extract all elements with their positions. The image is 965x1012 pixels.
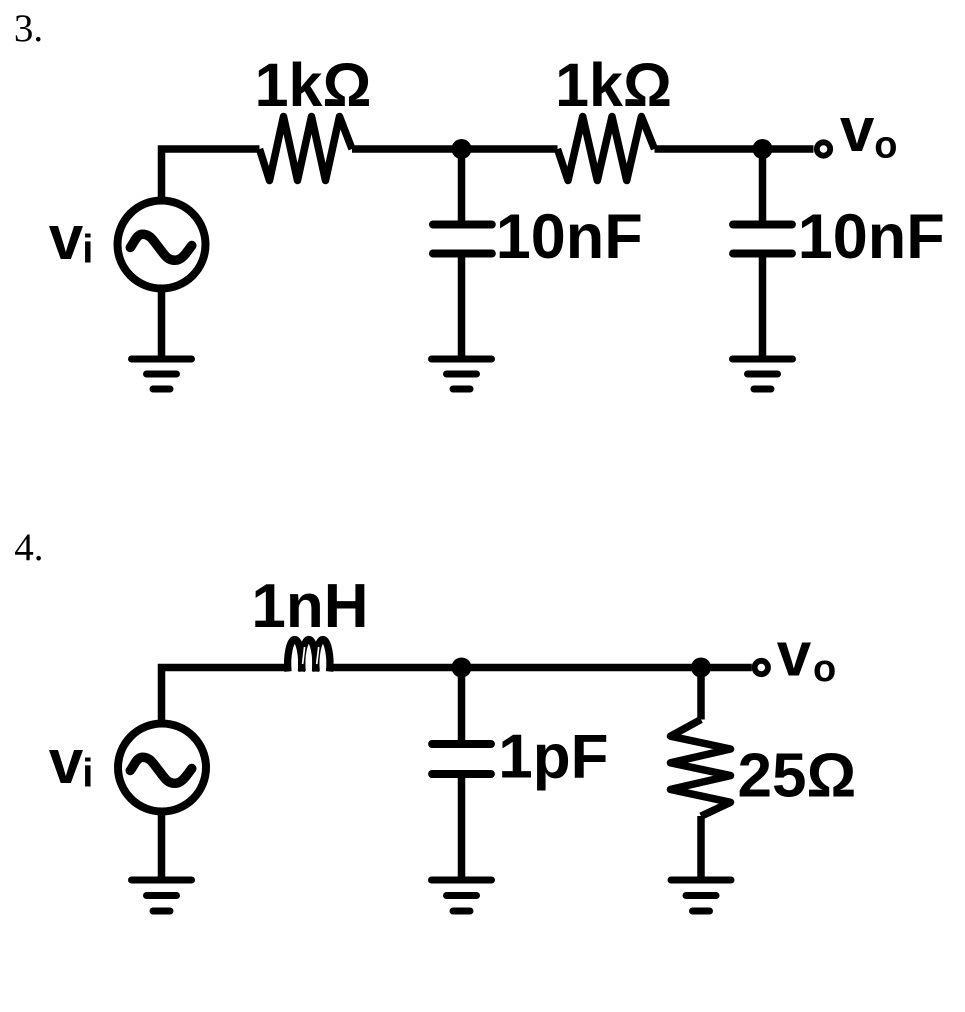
inductor L1 humps [288,640,330,672]
label vo circuit 4 [777,621,837,691]
svg-text:25Ω: 25Ω [738,742,857,811]
ground under C3 [432,880,492,911]
wire: C2 bottom plate to ground [759,254,767,360]
svg-text:v: v [840,96,875,165]
wire: R2 right lead to output terminal through node B [655,145,814,153]
svg-text:i: i [82,752,93,796]
svg-text:1pF: 1pF [498,723,608,792]
ground under source, circuit 4 [132,880,192,911]
resistor R2 1kΩ zigzag [558,117,655,181]
capacitor C3 plates [432,744,491,774]
svg-text:v: v [777,621,812,690]
AC source VI circuit 3: circle [118,201,206,289]
AC source VI circuit 4: circle [118,724,206,812]
capacitor C2 plates [733,225,792,254]
AC source VI circuit 4: sine wave [130,757,192,783]
wire: inductor right lead to output terminal, circuit 4 [329,664,752,672]
wire: node D down to resistor R3 [697,668,705,720]
wire: node A down to capacitor C1 [458,149,466,228]
svg-text:1kΩ: 1kΩ [255,51,372,119]
wire: node B down to capacitor C2 [759,149,767,228]
svg-text:10nF: 10nF [798,202,945,272]
ground under C1 [432,359,492,389]
svg-text:3.: 3. [14,7,43,50]
ground under source, circuit 3 [132,359,192,389]
label vi circuit 4 [49,728,94,797]
wire: C3 bottom plate to ground [458,774,466,880]
wire: source top corner to resistor R1 left lead [162,149,260,198]
wire: node C down to capacitor C3 [458,668,466,748]
label vi circuit 3 [49,204,94,273]
output terminal vo circuit 4 (open circle) [755,661,768,674]
node A junction dot [452,139,472,159]
wire: R3 bottom to ground [697,816,705,880]
label vo circuit 3 [840,96,898,167]
node C junction dot (capacitor node) [452,658,472,678]
wire: source bottom to ground, circuit 3 [158,288,166,359]
wire: source top corner to inductor L1 left lead, circuit 4 [162,668,291,723]
output terminal vo circuit 3 (open circle) [817,142,830,155]
wire: R1 right lead to R2 left lead through node A [352,145,558,153]
capacitor C1 plates [433,225,492,254]
resistor R3 25Ω vertical zigzag [671,720,731,817]
wire: C1 bottom plate to ground [458,254,466,360]
ground under C2 [733,359,793,389]
svg-text:1nH: 1nH [251,572,368,641]
svg-text:1kΩ: 1kΩ [555,51,672,119]
AC source VI circuit 3: sine wave [130,234,192,260]
svg-text:v: v [49,204,84,273]
svg-text:10nF: 10nF [496,202,643,272]
svg-text:o: o [813,648,836,690]
node B junction dot [753,139,773,159]
svg-text:o: o [874,125,897,167]
wire: source bottom to ground, circuit 4 [158,811,166,880]
svg-text:i: i [82,228,93,272]
svg-text:4.: 4. [14,526,43,569]
resistor R1 1kΩ zigzag [260,117,353,181]
ground under R3 [671,880,731,911]
svg-text:v: v [49,728,84,797]
node D junction dot (resistor node) [691,658,711,678]
